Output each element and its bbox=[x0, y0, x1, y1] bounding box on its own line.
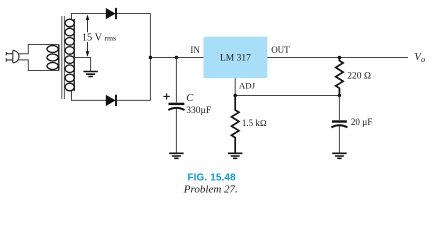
wire IN node to regulator bbox=[150, 57, 203, 59]
svg-text:Vo: Vo bbox=[414, 52, 425, 64]
transformer T1 primary bbox=[47, 45, 59, 71]
ground C2 bbox=[332, 153, 346, 158]
regulator U1 LM 317 bbox=[204, 37, 268, 78]
capacitor C2 wire to ground bbox=[338, 126, 340, 153]
ac plug P1 bbox=[6, 50, 19, 62]
ground C1 bbox=[169, 153, 183, 158]
wire top secondary to D1 bbox=[72, 14, 151, 20]
svg-text:LM 317: LM 317 bbox=[220, 53, 251, 63]
svg-text:15 V rms: 15 V rms bbox=[82, 32, 116, 43]
ground center tap bbox=[83, 72, 97, 77]
diode D2 bbox=[106, 95, 116, 106]
svg-text:IN: IN bbox=[190, 45, 200, 55]
wire bottom secondary to D2 bbox=[72, 91, 151, 100]
svg-text:1.5 kΩ: 1.5 kΩ bbox=[242, 118, 267, 128]
diode D1 bbox=[106, 8, 116, 19]
transformer T1 secondary bbox=[65, 19, 74, 91]
svg-text:20 µF: 20 µF bbox=[351, 117, 372, 127]
label 15 V rms bbox=[81, 32, 116, 43]
transformer center-tap wire bbox=[74, 58, 90, 72]
svg-text:OUT: OUT bbox=[271, 45, 290, 55]
wire ADJ horizontal bbox=[235, 95, 339, 97]
svg-text:C: C bbox=[186, 93, 194, 104]
wire ADJ pin bbox=[234, 78, 236, 95]
transformer T1 core bbox=[62, 16, 65, 99]
node junction dot E bbox=[338, 94, 341, 97]
svg-text:FIG. 15.48: FIG. 15.48 bbox=[187, 173, 236, 184]
node junction dot B (C tap) bbox=[175, 56, 178, 59]
svg-text:ADJ: ADJ bbox=[239, 81, 256, 91]
svg-text:220 Ω: 220 Ω bbox=[347, 72, 371, 82]
wire plug to primary bbox=[18, 45, 59, 71]
svg-text:Problem 27.: Problem 27. bbox=[183, 184, 238, 196]
capacitor C1 wire to ground bbox=[175, 109, 177, 153]
dimension arrow 15 V rms bbox=[86, 15, 90, 57]
capacitor C2 20uF plates bbox=[331, 122, 347, 128]
capacitor C2 wire from node bbox=[338, 96, 340, 121]
ground R2 bbox=[228, 153, 242, 158]
capacitor C1 wire from node bbox=[175, 58, 177, 103]
svg-text:330µF: 330µF bbox=[186, 106, 211, 116]
label + polarity bbox=[163, 93, 169, 99]
node junction dot A bbox=[149, 56, 152, 59]
capacitor C1 330uF plates bbox=[168, 104, 184, 110]
node junction dot D (ADJ) bbox=[234, 94, 237, 97]
wire OUT to Vo bbox=[267, 57, 408, 59]
resistor R1 220 ohm bbox=[336, 58, 343, 96]
node junction dot C (output) bbox=[338, 56, 341, 59]
resistor R2 1.5 kohm bbox=[232, 96, 239, 153]
wire right vertical D1 to D2 bbox=[149, 14, 151, 101]
